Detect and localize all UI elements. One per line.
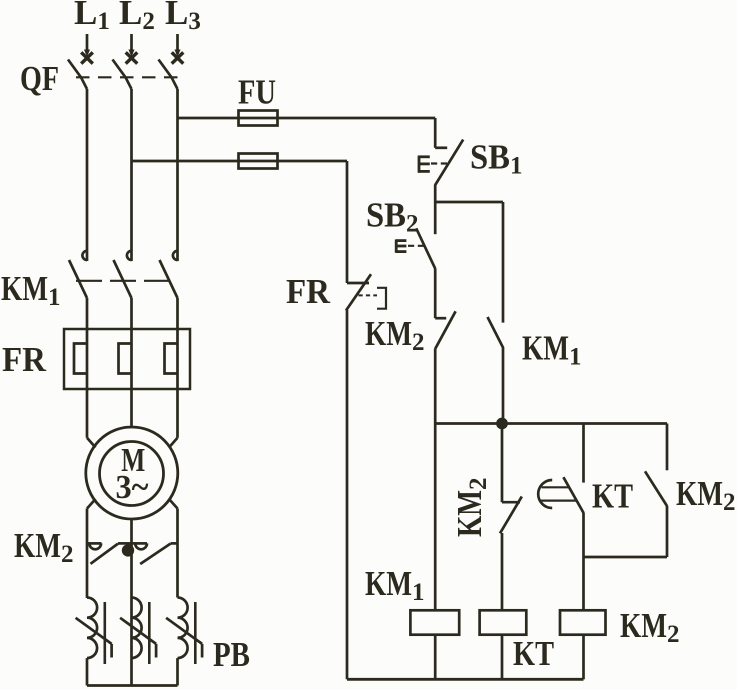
svg-text:FR: FR	[2, 340, 47, 379]
svg-text:KM1: KM1	[365, 564, 425, 606]
svg-text:SB1: SB1	[470, 138, 523, 180]
svg-text:L1: L1	[74, 0, 110, 35]
svg-text:FU: FU	[238, 73, 276, 112]
svg-text:SB2: SB2	[366, 196, 419, 238]
svg-text:KM1: KM1	[522, 329, 582, 371]
svg-text:KM2: KM2	[365, 314, 425, 356]
svg-text:L3: L3	[165, 0, 201, 35]
svg-text:KT: KT	[592, 477, 633, 516]
svg-text:KT: KT	[513, 634, 554, 673]
svg-text:KM2: KM2	[450, 478, 492, 538]
svg-text:QF: QF	[20, 59, 59, 98]
svg-text:KM1: KM1	[1, 269, 61, 311]
svg-text:KM2: KM2	[620, 606, 680, 648]
svg-text:3~: 3~	[116, 469, 149, 506]
svg-text:FR: FR	[286, 272, 331, 311]
svg-text:KM2: KM2	[676, 474, 736, 516]
svg-text:KM2: KM2	[14, 526, 74, 568]
svg-text:L2: L2	[119, 0, 155, 35]
svg-text:PB: PB	[213, 635, 250, 674]
